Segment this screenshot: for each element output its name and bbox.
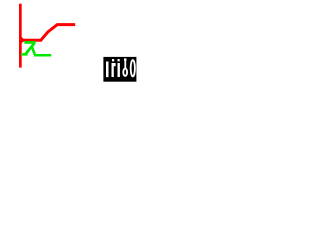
glyph 0a loop (123, 69, 127, 76)
glyph 0b oval (131, 60, 135, 76)
wire red branch polyline (horizontal, diagonal up, top horizontal) (21, 25, 75, 41)
node junction arrowhead on red line (22, 37, 26, 43)
glyph 9 dot (112, 59, 114, 61)
wire green short leg down-right (32, 46, 35, 55)
glyph 8 dot (118, 59, 120, 61)
wire green bottom-left bar (21, 53, 28, 56)
wire green bottom-right bar (34, 54, 51, 57)
glyph 9 bar with hook (112, 63, 116, 77)
glyph 0a stem (124, 61, 126, 68)
wire green top bar (24, 41, 35, 44)
wire green long diagonal down-left (25, 43, 34, 54)
label box (black) (103, 57, 136, 82)
wire red vertical axis line (19, 4, 22, 68)
glyph 0a dot (124, 58, 127, 61)
glyph 1 bar (106, 62, 109, 78)
glyph 8 bar (118, 63, 120, 77)
